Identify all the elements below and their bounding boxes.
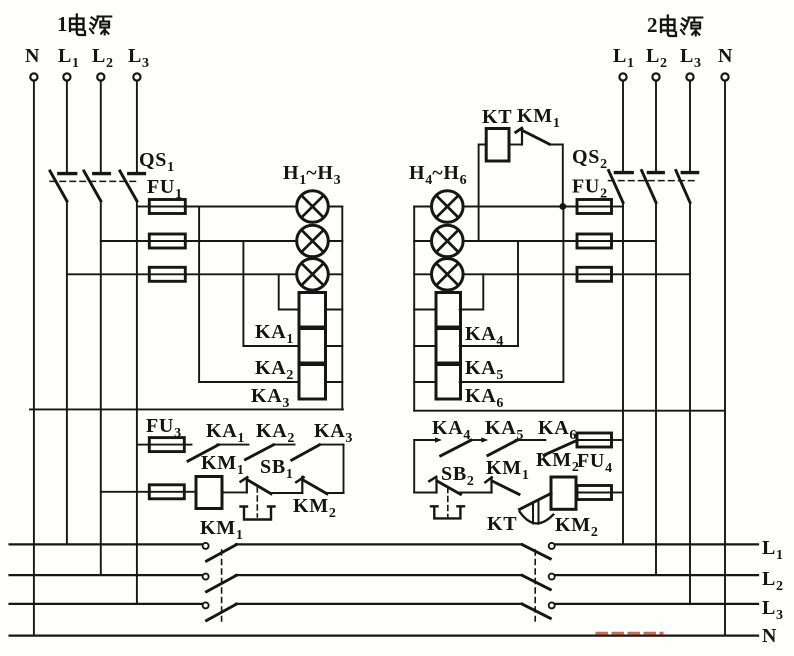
bus L1 left segment	[10, 543, 203, 545]
lamp H4	[432, 191, 464, 223]
wire junction A down to KA6 coil	[460, 207, 564, 383]
contactor coil KM2	[551, 477, 576, 509]
wire fuse FU2-b to L2 source2	[612, 240, 657, 242]
bus L2 middle segment	[236, 574, 522, 576]
svg-text:KM2: KM2	[293, 495, 336, 521]
wire tap row3 down to KA1 coil	[279, 274, 299, 309]
fuse FU2-a	[577, 200, 612, 214]
label KA4 coil	[465, 323, 503, 349]
relay coil KA2	[299, 329, 342, 364]
label KA1 contact	[206, 420, 244, 446]
wire KM1 NC to junction A	[550, 145, 563, 207]
contact KM2 main linkage	[534, 550, 536, 621]
wire L2 to fuse FU1-b (row2)	[101, 240, 150, 242]
button SB2 NC	[429, 477, 460, 495]
wire L2 source1 below QS1 down to bus L2	[100, 201, 102, 576]
wire left control right corner	[343, 445, 345, 493]
lamp H6	[432, 259, 464, 291]
wire fuse FU3-a to contact KA1	[184, 444, 191, 446]
svg-text:L3: L3	[128, 45, 149, 71]
label KT delayed contact	[487, 513, 517, 535]
svg-text:KT: KT	[482, 106, 512, 128]
contact KA2 NO	[246, 445, 295, 460]
svg-text:KA2: KA2	[255, 357, 293, 383]
label KM2 interlock	[293, 495, 336, 521]
wire lamp H2 right to common neutral vertical	[328, 240, 342, 242]
label bus L1	[762, 537, 783, 563]
wire common to lamp H5	[414, 240, 432, 242]
label KA5 contact	[485, 417, 523, 443]
button SB1 NC	[241, 477, 271, 494]
wire L3 source2 below QS2 down to bus L3	[689, 202, 691, 604]
fuse FU1-c	[149, 267, 185, 281]
wire L1 source2 below QS2 down to bus L1	[622, 202, 624, 544]
svg-text:H4~H6: H4~H6	[409, 162, 467, 188]
wire coil KM1 to button SB1	[222, 491, 247, 493]
label SB1	[260, 456, 293, 482]
fuse FU1-b	[149, 234, 185, 248]
wire lamp H1 right to common neutral vertical	[328, 206, 342, 208]
fuse FU3-b	[149, 485, 184, 499]
label KM1 interlock	[486, 457, 529, 483]
svg-text:KM1: KM1	[517, 105, 560, 131]
fuse FU4-b	[577, 486, 612, 500]
svg-text:L1: L1	[613, 45, 634, 71]
label KA4 contact	[432, 417, 470, 443]
bus L2 left segment	[10, 574, 203, 576]
bus L3 middle segment	[236, 603, 522, 605]
wire row3 fuse to lamp H3	[185, 273, 297, 275]
label KA5 coil	[465, 357, 503, 383]
contact KA4 NO	[441, 437, 489, 455]
label H1~H3	[283, 162, 341, 188]
wire N source1 vertical down to N bus	[33, 81, 35, 636]
svg-text:KM1: KM1	[200, 517, 243, 543]
svg-text:L3: L3	[762, 597, 783, 623]
terminal N source2	[721, 73, 728, 80]
button SB2 actuator link	[431, 488, 464, 519]
terminal N source1	[30, 73, 37, 80]
wire corner to button SB2	[414, 492, 436, 494]
svg-text:1: 1	[57, 12, 68, 36]
right neutral rail to N source2	[414, 410, 725, 412]
bus L1 right segment	[555, 543, 758, 545]
bus N	[10, 634, 758, 636]
switch QS2 label	[572, 146, 607, 172]
wire common to lamp H4	[414, 206, 432, 208]
relay coil KA1	[299, 293, 342, 328]
contact KA6 NO	[544, 440, 577, 455]
wire L1 source1 down to QS1	[66, 81, 68, 172]
lamp H1	[297, 191, 329, 223]
wire fuse FU4-b to L1 source2	[612, 492, 624, 494]
svg-text:KT: KT	[487, 513, 517, 535]
svg-text:KA1: KA1	[206, 420, 244, 446]
svg-text:L1: L1	[58, 45, 79, 71]
relay coil KA4	[414, 293, 460, 328]
switch QS1 label	[139, 149, 174, 175]
label KT timer coil	[482, 106, 512, 128]
switch QS1 (3-pole knife switch)	[50, 171, 144, 201]
fuse FU4-a	[577, 433, 612, 447]
wire L2 source2 below QS2 down to bus L2	[655, 202, 657, 575]
wire fuse FU2-a to L1 source2	[612, 206, 624, 208]
wire L3 source2 down to QS2	[689, 81, 691, 171]
label FU3	[146, 415, 181, 441]
svg-text:KA3: KA3	[251, 385, 289, 411]
terminal labels right: L1 L2 L3 N	[613, 45, 733, 71]
label KA6 coil	[465, 385, 503, 411]
svg-text:2: 2	[647, 13, 658, 37]
svg-text:KM1: KM1	[201, 452, 244, 478]
wire row2 up to KT coil	[479, 145, 487, 242]
wire lamp H5 to fuse FU2-b	[463, 240, 577, 242]
wire tap row2 down to KA2 coil	[243, 241, 299, 346]
svg-text:KA6: KA6	[465, 385, 503, 411]
relay coil KA6	[414, 365, 460, 400]
terminal L1 source1	[63, 73, 70, 80]
wire fuse FU2-c to L3 source2	[612, 273, 691, 275]
terminal L3 source1	[133, 73, 140, 80]
label KM1 main contacts	[200, 517, 243, 543]
label SB2	[441, 463, 474, 489]
wire L2 to fuse FU3-b	[101, 491, 150, 493]
contact KM1 main pole3	[203, 602, 237, 620]
label KM2 coil (below)	[555, 514, 598, 540]
contact KM2 main pole2	[522, 574, 555, 590]
wire fuse FU4-a to L1 source2	[612, 439, 624, 441]
label FU4	[577, 450, 612, 476]
wire L2 source2 down to QS2	[655, 81, 657, 171]
terminal L2 source1	[97, 73, 104, 80]
contact KM2 main pole3	[522, 602, 555, 618]
svg-text:L2: L2	[762, 568, 783, 594]
bus L2 right segment	[555, 574, 758, 576]
red scan artifact	[597, 632, 662, 635]
label FU1	[147, 176, 182, 202]
wire L3 source1 below QS1 down to bus L3	[136, 201, 138, 604]
svg-text:KA3: KA3	[314, 420, 352, 446]
fuse FU2-c	[577, 267, 612, 281]
svg-text:KA5: KA5	[465, 357, 503, 383]
contact KA5 NO	[488, 440, 546, 455]
label bus L3	[762, 597, 783, 623]
terminal L3 source2	[686, 73, 693, 80]
wire tap row2 down to KA5 coil	[460, 241, 518, 346]
svg-text:KM2: KM2	[555, 514, 598, 540]
contact KM1 main linkage	[221, 550, 223, 621]
fuse FU2-b	[577, 234, 612, 248]
terminal labels left: N L1 L2 L3	[25, 45, 149, 71]
fuse FU3-a	[149, 438, 184, 452]
timer coil KT	[486, 129, 522, 162]
svg-text:H1~H3: H1~H3	[283, 162, 341, 188]
wire row1 fuse to lamp H1	[185, 206, 297, 208]
wire lamp H4 to junction A	[463, 206, 577, 208]
wire lamp H6 to fuse FU2-c	[463, 273, 577, 275]
label KM1 aux (above SB1)	[201, 452, 244, 478]
label KM1 break contact (top)	[517, 105, 560, 131]
relay coil KA5	[414, 329, 460, 364]
svg-text:QS2: QS2	[572, 146, 607, 172]
wire common to lamp H6	[414, 273, 432, 275]
svg-text:KM2: KM2	[536, 449, 579, 475]
lamp H3	[297, 259, 329, 291]
contact KM1 main pole2	[203, 574, 237, 592]
label KM2 coil (row)	[536, 449, 579, 475]
wire SB1 to contact KM2	[270, 492, 302, 494]
contact KM2 main pole1	[522, 543, 555, 559]
contact KM1 NC (top branch)	[516, 128, 550, 144]
contact KM1 NC interlock	[485, 477, 519, 494]
contact KT delayed NO	[520, 493, 554, 523]
label source 1 (1电源)	[57, 12, 111, 36]
terminal L2 source2	[652, 73, 659, 80]
contact KM1 main pole1	[203, 543, 237, 561]
wire tap row1 down to KA3 coil	[199, 207, 299, 383]
label KA2 contact	[256, 420, 294, 446]
wire tap row3 down to KA4 coil	[460, 274, 484, 309]
wire L2 source1 down to QS1	[100, 81, 102, 172]
svg-text:L3: L3	[680, 45, 701, 71]
label KA2 coil	[255, 357, 293, 383]
label bus N	[762, 625, 777, 647]
wire corner to contact KA4	[414, 437, 442, 442]
svg-text:N: N	[25, 45, 40, 67]
label H4~H6	[409, 162, 467, 188]
label FU2	[572, 176, 607, 202]
svg-text:L2: L2	[646, 45, 667, 71]
contact KM2 NC interlock	[296, 477, 327, 494]
lamp H5	[432, 225, 464, 257]
wire L1 source2 down to QS2	[622, 81, 624, 171]
switch QS2 (3-pole knife switch)	[609, 171, 698, 203]
wire right common neutral vertical	[413, 207, 415, 411]
label source 2 (2电源)	[647, 13, 702, 37]
svg-text:FU4: FU4	[577, 450, 612, 476]
wire lamp H3 right to common neutral vertical	[328, 273, 342, 275]
button SB1 actuator link	[241, 487, 275, 520]
wire L1 to fuse FU1-c (row3)	[67, 273, 149, 275]
label KA6 contact	[538, 417, 576, 443]
svg-text:L1: L1	[762, 537, 783, 563]
svg-text:FU2: FU2	[572, 176, 607, 202]
svg-text:KA1: KA1	[255, 321, 293, 347]
wire row2 fuse to lamp H2	[185, 240, 297, 242]
left neutral rail to N	[30, 408, 343, 410]
label KA3 contact	[314, 420, 352, 446]
svg-text:KA2: KA2	[256, 420, 294, 446]
contactor coil KM1	[196, 477, 222, 509]
bus L3 right segment	[555, 603, 758, 605]
contact KA1 NO	[188, 445, 249, 461]
fuse FU1-a	[149, 200, 185, 214]
lamp H2	[297, 225, 329, 257]
contact KA3 NO	[292, 445, 344, 460]
svg-text:N: N	[718, 45, 733, 67]
wire fuse FU3-b to coil KM1	[184, 491, 196, 493]
junction A dot on row1	[559, 203, 566, 210]
terminal L1 source2	[619, 73, 626, 80]
relay coil KA3	[299, 365, 342, 400]
wire L3 to fuse FU1-a (row1)	[137, 206, 149, 208]
wire L3 source1 down to QS1	[136, 81, 138, 172]
bus L3 left segment	[10, 603, 203, 605]
label KA3 coil	[251, 385, 289, 411]
svg-text:SB1: SB1	[260, 456, 293, 482]
wire L1 source1 below QS1 down to bus L1	[66, 201, 68, 545]
wire N source2 vertical down to N bus	[724, 81, 726, 636]
wire left common neutral vertical	[341, 207, 343, 410]
wire SB2 to contact KM1	[460, 492, 492, 494]
wire contact KM2 to corner	[326, 492, 344, 494]
svg-text:L2: L2	[92, 45, 113, 71]
svg-text:N: N	[762, 625, 777, 647]
label bus L2	[762, 568, 783, 594]
wire L3 to fuse FU3-a	[137, 444, 149, 446]
svg-text:QS1: QS1	[139, 149, 174, 175]
bus L1 middle segment	[236, 543, 522, 545]
wire right control left corner	[413, 440, 415, 493]
label KA1 coil	[255, 321, 293, 347]
